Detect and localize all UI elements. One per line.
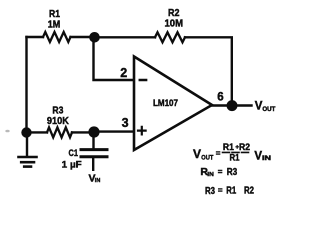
svg-text:=: = [218, 186, 223, 195]
svg-text:3: 3 [122, 116, 129, 130]
node 6 (output junction) [227, 100, 238, 111]
svg-text:R3: R3 [205, 186, 215, 197]
wire: node C to op-amp pin 3 [96, 130, 133, 132]
svg-text:IN: IN [262, 156, 271, 162]
wire: node A down to pin 2 [94, 39, 134, 80]
svg-text:R1: R1 [49, 9, 60, 20]
pin label 3 [122, 116, 129, 130]
formula R3 = R1 || R2 [205, 186, 254, 197]
pin label 2 [120, 66, 127, 80]
svg-text:LM107: LM107 [153, 98, 178, 108]
svg-text:R2: R2 [244, 186, 254, 197]
formula VOUT = (R1+R2)/R1 * VIN [193, 142, 271, 162]
svg-text:1M: 1M [48, 20, 61, 31]
op-amp non-inverting input plus sign [138, 127, 146, 135]
node B (junction of left rail, R3, ground) [21, 127, 31, 137]
value 1M [48, 20, 61, 31]
svg-text:R1: R1 [230, 152, 240, 162]
svg-text:R1: R1 [223, 142, 234, 152]
svg-text:2: 2 [120, 66, 127, 80]
formula RIN = R3 [200, 166, 237, 178]
wire: R2 to top-right corner down to node 6 [185, 37, 232, 100]
svg-text:R2: R2 [168, 8, 180, 19]
ground [19, 134, 37, 167]
node C (junction of R3, C1, pin 3) [88, 126, 99, 137]
label R2 [168, 8, 180, 19]
value 1 uF [62, 160, 82, 171]
op-amp inverting input minus sign [140, 79, 146, 82]
wire: op-amp output to node 6 [212, 104, 227, 106]
svg-text:IN: IN [95, 178, 101, 184]
svg-text:=: = [218, 168, 223, 177]
svg-text:6: 6 [217, 92, 223, 104]
wire: top rail left segment [27, 36, 44, 38]
svg-text:IN: IN [207, 172, 214, 178]
svg-text:=: = [216, 149, 221, 158]
svg-text:R2: R2 [239, 142, 250, 152]
label R3 [52, 106, 63, 117]
svg-text:R3: R3 [227, 167, 238, 178]
label R1 [49, 9, 60, 20]
resistor R3 [47, 127, 72, 137]
svg-text:R1: R1 [226, 186, 236, 197]
value 10M [165, 19, 184, 30]
svg-text:V: V [193, 147, 201, 161]
pin label 6 [217, 92, 223, 104]
node A (junction of R1, R2, pin2 feedback) [89, 32, 100, 43]
capacitor C1 [81, 134, 107, 170]
svg-text:C1: C1 [69, 148, 79, 159]
resistor R1 [43, 32, 70, 42]
resistor R2 [155, 32, 185, 42]
svg-text:910K: 910K [47, 116, 70, 127]
label C1 [69, 148, 79, 159]
wire: node B to R3 [28, 131, 47, 133]
formula fraction bar [223, 151, 252, 153]
node VOUT label [255, 100, 276, 113]
wire: node 6 to VOUT [238, 104, 252, 106]
wire: node A to R2 [97, 36, 155, 38]
wire: R3 to node C [72, 131, 92, 133]
wire: R1 to node A [71, 36, 93, 38]
label LM107 [153, 98, 178, 108]
node VIN label below C1 [89, 172, 101, 184]
svg-text:10M: 10M [165, 19, 184, 30]
wire: left rail vertical [25, 37, 27, 133]
value 910K [47, 116, 70, 127]
op-amp U1 LM107 triangle [134, 57, 212, 151]
svg-text:OUT: OUT [201, 155, 213, 161]
svg-text:1 µF: 1 µF [62, 160, 82, 171]
svg-text:OUT: OUT [262, 106, 275, 113]
scan smudge near node B [5, 130, 9, 133]
